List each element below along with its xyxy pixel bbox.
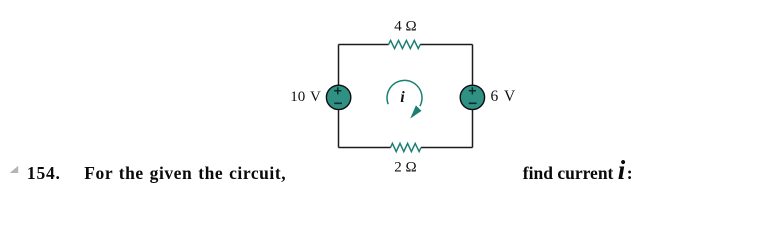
voltage source V2 6V circle [460, 85, 484, 109]
wire bottom-right segment [421, 147, 473, 149]
arrowhead of loop [410, 105, 421, 118]
svg-text:For the given the circuit,: For the given the circuit, [84, 163, 286, 183]
voltage source V1 10V circle [326, 85, 350, 109]
wire bottom-left segment [339, 147, 391, 149]
minus sign of V1 [334, 102, 342, 104]
svg-text:2 Ω: 2 Ω [394, 160, 416, 176]
svg-text:10 V: 10 V [290, 89, 321, 105]
resistor R1 4-ohm zigzag [389, 40, 421, 48]
svg-text:4 Ω: 4 Ω [394, 19, 416, 35]
svg-text:find current: find current [523, 163, 614, 183]
plus sign of V1 [334, 87, 341, 94]
svg-text::: : [627, 163, 633, 183]
current loop arrow [387, 80, 422, 118]
wire left vertical [338, 45, 340, 148]
svg-text:i: i [618, 155, 626, 185]
svg-text:i: i [400, 89, 405, 106]
minus sign of V2 [469, 102, 477, 104]
wire top-right segment [420, 44, 472, 46]
list collapse triangle marker [10, 166, 19, 173]
wire top-left segment [339, 44, 389, 46]
svg-text:6 V: 6 V [491, 88, 517, 105]
wire right vertical [472, 45, 474, 148]
svg-text:154.: 154. [27, 163, 61, 183]
resistor R2 2-ohm zigzag [391, 143, 422, 151]
plus sign of V2 [469, 87, 476, 94]
